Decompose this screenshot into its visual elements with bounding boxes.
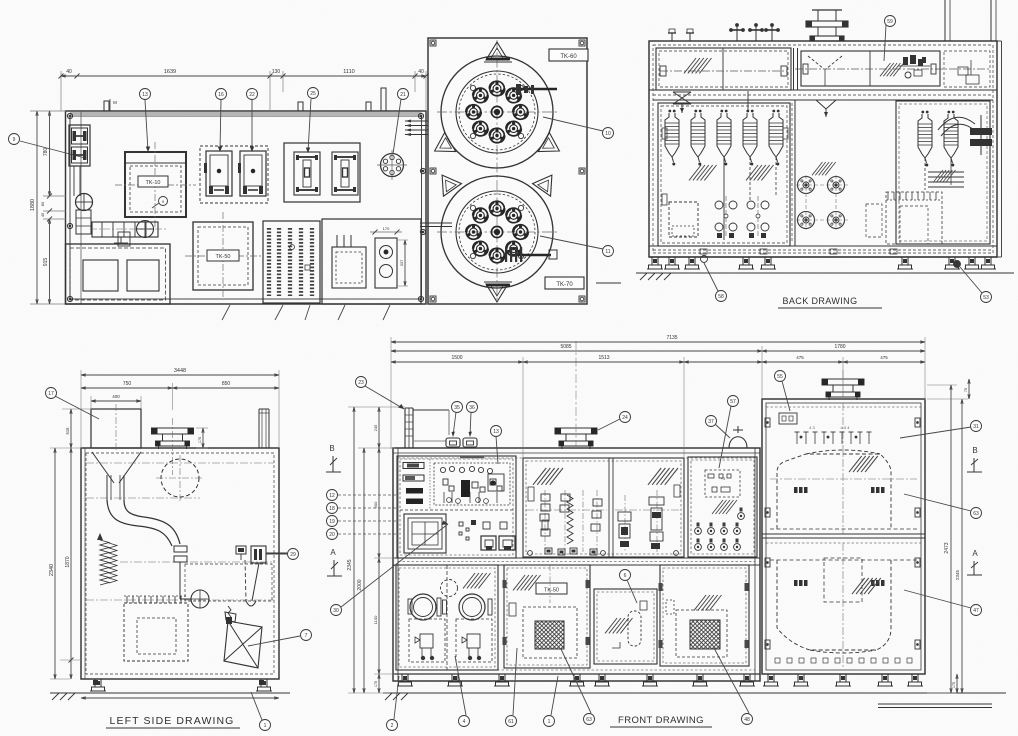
tank TK-70 bottom lug flange [484,282,512,285]
middle compartment dashed capsule [612,601,647,648]
back middle hatch [812,162,836,175]
balloon 13 front [491,426,502,437]
front right cabinet feet [763,674,923,686]
back right compartment bottles [918,111,958,190]
front left cabinet frame [393,448,760,681]
fourth compartment mesh window [666,600,727,657]
plan lower-left room with two squares [66,244,171,304]
left side ground line [50,693,290,700]
tank TK-60 side pipe [514,84,557,95]
plan bottom leader stubs [222,305,390,320]
leader balloon 31 [900,427,971,438]
left side top dims 3448/750/850/400 [81,368,279,448]
left side chimney [259,409,269,448]
back top compartment left [656,48,791,90]
back comb dashed boxes [866,192,942,244]
balloon 29 left side [288,549,299,560]
pipes from plan to tank box [405,120,452,227]
front duct valve boxes (balloons 35 36) [446,438,477,447]
tank box frame [428,38,587,304]
back valve cluster (balloon 59 target) [880,55,930,78]
balloon 59 back [885,16,896,27]
tank TK-10 plan square [115,142,196,227]
back left compartment lower details [662,128,788,238]
leader balloon 6 [627,580,637,603]
left side top hopper box [91,404,141,452]
balloon 23 front top left [356,377,367,388]
plan terminal strip panel [263,221,320,303]
left side dashed circle manway [156,455,204,502]
label TK-60 [549,49,588,61]
balloon 55 right cabinet [775,371,786,382]
label LEFT SIDE DRAWING [106,715,240,728]
back right compartment [896,101,990,244]
front middle right glass hatch [648,468,678,485]
leader balloon 21 [393,99,401,154]
leader balloon 1 [251,692,262,720]
back hatch marks main [689,165,717,180]
front middle right valve group [615,485,681,552]
control panel instrument cluster [434,457,510,505]
leader balloon 11 [540,236,603,249]
back right curved pipes [938,117,975,136]
pump circles [408,580,492,621]
front control panel [397,456,516,558]
leader balloon 17 [55,396,99,419]
balloon 6 [620,570,631,581]
leader balloon 29 [266,553,287,555]
back center funnel [748,91,836,117]
fourth compartment hatch [694,595,722,610]
balloon 37 [706,416,717,427]
right cabinet lower level gauges [794,580,885,586]
pump compartment hatch [463,573,491,588]
left side zigzag conveyor [97,533,117,585]
leader balloon 58 [704,263,718,291]
balloon 47 right [971,605,982,616]
left side funnel under hopper [92,452,141,500]
front pump compartment [396,565,498,670]
right cabinet lower tank dashed outline [770,543,917,668]
balloon 36 [467,402,478,413]
leader balloon 53 [960,267,982,293]
balloon 30 front [331,605,342,616]
plan left dimension lines 1880/780/915 [30,111,66,304]
control panel nested square window [404,514,446,553]
back left funnel valve [673,92,691,113]
front middle section door knobs [528,551,679,556]
back bottom band [649,246,997,257]
right cabinet lower hatch [852,578,881,594]
back chimney lines top right [945,0,996,41]
back horizontal band [649,90,997,100]
balloon 57 [728,396,739,407]
back coil bottles row [665,110,783,240]
leader balloon 13 front [496,436,498,464]
knob panel knob grid [695,508,745,551]
back drawing outer frame [649,41,1002,257]
balloon 31 right [971,421,982,432]
balloon 35 [452,402,463,413]
plan left balloon 9 [9,134,20,145]
section letter A right [967,549,982,575]
knob panel hatch [712,500,737,514]
front knob panel [688,457,757,557]
label FRONT DRAWING [610,715,712,727]
back top compartment left hatch [684,58,712,73]
front alarm bell on cabinet top [729,426,747,448]
left side drawing main box [81,448,279,679]
front middle left glass hatch [533,468,563,485]
back ground line [636,273,1014,280]
tank TK-70 side pipe [505,247,557,262]
TK-50 compartment hatch [513,575,541,590]
left side canister feed valve [236,546,287,606]
right cabinet upper tank dashed outline [770,403,917,534]
tank TK-60 top circle [429,42,565,168]
plan flange circle with bolt holes [377,150,407,180]
front top center flange [555,341,597,449]
right cabinet door hinges lower [765,558,920,649]
condenser pair B solid enclosure [284,143,360,202]
control panel indicator bars [403,463,424,505]
TK-50 label front [536,583,567,594]
section letter B right [967,446,982,472]
right cabinet tank nozzle ticks [795,425,872,444]
plan top edge pipe stubs [104,88,386,111]
leaders 35 36 [453,412,456,436]
plan top balloon 21 [398,89,409,100]
front second dimension row 5085/1780 [391,344,925,399]
leader balloon 47 [904,590,971,608]
bottom right datum bar [878,704,992,708]
leader balloon 9 to motor box [20,141,85,158]
leader balloon 63 [904,494,971,511]
left side mid flanges and drop pipe [174,546,209,608]
balloon 24 [620,412,631,423]
plan top balloon 25 [308,88,319,99]
left side canister with X brace [224,612,262,668]
front third dimension row 1500/1513/475/475 [391,355,925,458]
right cabinet upper level gauges [794,487,885,493]
leader balloon 24 [598,419,620,430]
back top compartment right with funnel [795,51,990,87]
front TK-50 compartment [503,565,591,668]
leader balloon 16 [220,100,221,151]
left side horizontal dash-dot lines [86,463,274,600]
balloon 17 left side [46,388,57,399]
plan top balloon 13 [140,89,151,100]
right cabinet upper hatch [849,456,878,472]
balloon 58 back [716,291,727,302]
left side comb box bottom [124,596,188,661]
left side top flange [152,418,194,475]
front bottom balloons [387,648,753,731]
front middle section frame [523,458,684,557]
front top dimension 7135 [391,335,925,449]
back middle compartment flange circles [792,100,848,246]
front ground line [383,693,1006,700]
balloon 7 left side [301,630,312,641]
back feet [647,257,996,269]
control panel lower right switches [459,520,515,550]
tank TK-50 plan square [185,212,261,298]
pump and screw conveyor assembly [76,194,167,247]
front left vertical dims [347,407,405,693]
front stack above control panel [405,408,449,448]
plan view outer frame [66,111,427,304]
tank TK-70 bottom circle [433,169,561,302]
section letter B left [326,444,341,472]
leader balloon 23 [365,386,404,409]
tank centerline vertical [496,40,498,300]
back top bolts and valves [668,23,780,41]
front fourth compartment [659,565,750,666]
plan top dimension line 40/1639/130/1110/40 [59,69,429,111]
balloon 11 tank box [603,246,614,257]
leader balloon 55 [782,381,790,411]
leader balloon 59 [884,25,886,61]
mark near tank box [596,282,621,284]
balloon 63 right [971,508,982,519]
pipe below motor box [74,166,80,196]
balloon 53 back [981,292,992,303]
leader balloon 57 [719,406,731,468]
leader balloon 22 [251,100,253,151]
left side S-pipe [107,500,180,546]
left side dashed equipment box right [185,564,272,601]
left side feet [90,679,272,691]
right cabinet EQ box [779,413,797,424]
TK-50 crosshatch mesh window [509,565,577,658]
back right manifold with hatch [928,170,964,187]
tank TK-60 top lug flange [484,59,512,62]
back right black flange stack [970,115,992,155]
left side flange mini dim [196,428,208,448]
pump dashed outlines with pumps [409,619,492,662]
knob panel dashed instrument box [705,470,740,497]
plan top balloon 16 [216,89,227,100]
leader balloon 13 to TK-10 [145,100,148,151]
leader balloon 25 [308,99,311,152]
plan view corner bolts [67,113,425,301]
leader balloon 7 [248,636,300,646]
back top flange [806,10,848,41]
leader balloon 37 [715,424,730,438]
right cabinet door hinges upper [765,418,920,517]
leader balloon 10 [543,117,603,131]
tank box corner bolts [430,40,585,302]
section letter A left [327,548,342,576]
leader balloon 30 [341,524,448,607]
balloon 1 left side [260,720,271,731]
plan electrical panel with transformer [322,219,421,304]
left side left dims 2340/515/1870 [49,409,92,679]
left side bottom dim [81,697,279,699]
front right vertical dims [927,379,970,693]
balloon column left of front [327,490,398,540]
balloon 10 tank box [603,128,614,139]
front right cabinet frame [762,399,925,674]
back top center posts [794,48,798,90]
front middle left valve trees [526,487,607,555]
left side canister spout flame [226,606,232,624]
right cabinet top flange [822,370,864,400]
condenser pair A dashed enclosure [200,146,268,203]
motor box (balloon 9 target) [69,125,90,166]
front small middle compartment [594,589,657,664]
back main left compartment [658,103,790,246]
middle compartment hatch [605,618,633,633]
plan top balloon 22 [247,89,258,100]
label TK-70 [545,277,584,289]
label BACK DRAWING [778,296,882,308]
front left cabinet feet [397,674,755,686]
right cabinet bottom marks [775,658,912,663]
